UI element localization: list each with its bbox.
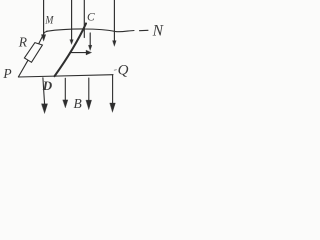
resistor R (body) [24, 43, 42, 63]
B field arrow top 1 (shaft) [43, 0, 45, 35]
wire: resistor top lead to rail MN start [39, 31, 47, 43]
rail PQ (bottom) [18, 75, 113, 77]
B field arrow top 2 (shaft) [71, 0, 73, 40]
svg-text:N: N [152, 22, 165, 39]
B field arrow bottom 1 / under D (shaft) [43, 78, 45, 105]
tick near Q [114, 69, 116, 72]
B field arrow top 4 (head) [113, 41, 117, 47]
B field arrow bottom 4 at Q corner (shaft) [112, 75, 114, 103]
B field arrow bottom 3 (head) [86, 100, 92, 110]
svg-text:P: P [2, 66, 11, 81]
paper background [0, 0, 168, 122]
velocity arrow v (head) [86, 50, 92, 55]
svg-text:C: C [87, 11, 95, 23]
B field arrow bottom 1 (head) [42, 104, 48, 114]
rail MN lead-out dash before N [140, 29, 149, 31]
svg-text:D: D [42, 78, 53, 93]
svg-text:M: M [45, 13, 55, 27]
B field arrow bottom 2 (head) [63, 100, 68, 108]
B field arrow bottom 2 (shaft) [64, 78, 66, 100]
velocity arrow v (shaft) [70, 52, 87, 54]
svg-text:R: R [18, 34, 28, 49]
B field arrow top 3b short segment (shaft) [89, 33, 91, 46]
B field arrow top 3 / line C (shaft) [83, 0, 85, 38]
svg-text:B: B [74, 96, 82, 111]
rail MN (top) [47, 29, 135, 32]
B field arrow top 1 (head) [41, 35, 45, 41]
wire: resistor bottom lead to P corner [18, 60, 28, 77]
B field arrow top 2 (head) [70, 40, 73, 45]
svg-text:Q: Q [118, 63, 129, 79]
B field arrow top 4 (shaft) [113, 0, 115, 41]
B field arrow bottom 3 (shaft) [88, 78, 90, 101]
rod CD [55, 24, 87, 77]
B field arrow bottom 4 (head) [110, 103, 116, 112]
B field arrow top 3b (head) [89, 45, 92, 50]
